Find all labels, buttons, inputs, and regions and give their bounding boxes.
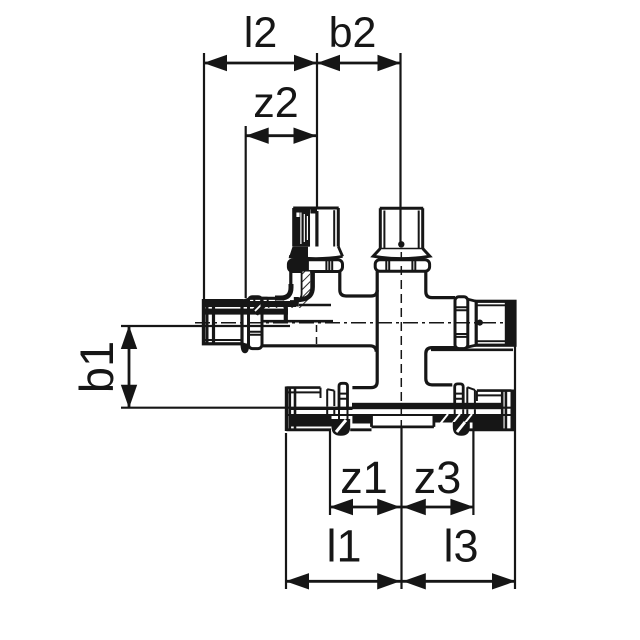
sectioned pipe wall dark band	[204, 309, 288, 315]
top dark insert	[311, 209, 318, 214]
b1 arrow up	[121, 326, 137, 350]
column right side upper	[426, 271, 455, 297]
bottom edge left	[286, 428, 331, 431]
z1 extension line left	[329, 431, 331, 515]
left sleeve	[286, 388, 320, 429]
right collar	[455, 384, 464, 407]
sleeve outline	[203, 301, 242, 344]
sleeve lower inner line	[203, 339, 242, 341]
indicator dot	[477, 320, 483, 326]
right sleeve	[477, 391, 512, 429]
bottom edge right	[467, 428, 516, 431]
svg-text:z3: z3	[414, 452, 462, 503]
b1 arrow down	[121, 385, 137, 409]
b1 extension line top	[121, 325, 290, 327]
hatch wedge over collar	[250, 300, 269, 316]
l2 arrow right	[294, 55, 317, 71]
collar ring	[375, 260, 429, 272]
elbow section hatch region	[262, 272, 310, 309]
z3 label	[414, 452, 462, 503]
elbow outer wall	[249, 272, 291, 299]
right arm bottom	[426, 348, 455, 385]
sleeve end bands	[207, 301, 214, 344]
z2 arrow left	[246, 128, 269, 144]
b1 extension line bottom / pipe seam	[121, 407, 513, 409]
sectioned skirt blob below cone	[241, 344, 250, 354]
l2 extension line left	[203, 53, 205, 300]
b2 extension line right	[399, 53, 401, 244]
l2 dimension line	[204, 62, 401, 65]
z1 label	[340, 452, 388, 503]
z3 arrow left	[403, 499, 426, 515]
l1 extension line left	[285, 433, 287, 589]
collar/skirt sides crossing white band	[327, 409, 475, 422]
centerline horizontal axis	[195, 322, 509, 324]
centre block	[372, 415, 434, 427]
elbow bore wall	[290, 272, 302, 302]
sleeve outline	[293, 208, 339, 247]
indicator dot	[398, 241, 404, 247]
collar ring	[455, 297, 468, 349]
l3 arrow left	[403, 573, 426, 589]
svg-text:l2: l2	[244, 9, 277, 57]
lower-right web edge	[431, 348, 513, 351]
step bump on elbow top edge	[254, 298, 267, 302]
bottom edge / bridge	[262, 346, 376, 352]
svg-text:b2: b2	[329, 9, 377, 57]
l1 label	[326, 521, 361, 572]
l1/l3 dimension line	[286, 580, 515, 583]
bottom bump right (sectioned knuckle)	[453, 422, 470, 436]
z2 extension line left	[245, 126, 247, 298]
centerline vertical left port	[316, 325, 318, 345]
white slivers in section	[301, 213, 308, 245]
collar ribs	[250, 332, 261, 335]
upper wall dark band thin part	[290, 407, 353, 410]
cone	[468, 299, 476, 347]
skirt right	[289, 247, 343, 259]
right skirt	[467, 387, 475, 406]
z2 arrow right	[294, 128, 317, 144]
sleeve outline	[476, 301, 515, 345]
hatch white slashes right	[440, 414, 472, 424]
b2 arrow left	[317, 55, 340, 71]
left collar ribs	[340, 394, 348, 399]
b2 arrow right	[378, 55, 401, 71]
z3 arrow right	[450, 499, 474, 515]
l1 arrow left	[286, 573, 310, 589]
right collar ribs	[455, 394, 463, 399]
elbow pipe wall dark strip	[296, 272, 313, 301]
port wall bar under elbow	[284, 307, 288, 321]
collar ribs	[456, 307, 466, 337]
skirt sectioned left	[289, 247, 308, 258]
svg-text:z1: z1	[340, 452, 388, 503]
z1 arrow left	[330, 499, 354, 515]
b1 label rotated	[70, 341, 123, 393]
upper wall dark band thick part	[352, 403, 502, 409]
right sleeve inner line	[477, 391, 502, 401]
sectioned upper wall dark band	[204, 301, 296, 307]
sleeve end band dark	[505, 301, 515, 345]
collar sectioned fill	[289, 261, 309, 271]
lower wall dark band mid-left	[352, 416, 371, 424]
z1/z3 dimension line	[330, 506, 473, 509]
centerline vertical main	[400, 252, 402, 438]
left collar	[339, 383, 348, 407]
lower wall dark band right	[473, 416, 502, 429]
sleeve inner walls	[384, 211, 418, 249]
svg-text:b1: b1	[70, 341, 123, 393]
collar ribs	[326, 261, 332, 271]
collar ribs	[386, 261, 415, 271]
sleeve inner lines	[476, 305, 506, 341]
column left side	[352, 271, 377, 387]
l3 label	[443, 521, 478, 572]
z2 dimension line	[246, 134, 317, 137]
sleeve pipe wall dark strip	[315, 211, 318, 247]
left skirt	[327, 389, 334, 406]
b2 label	[329, 9, 377, 57]
collar ring	[288, 260, 342, 272]
z2 label	[253, 79, 298, 127]
elbow outer corner knuckle	[275, 284, 291, 298]
cone	[242, 299, 249, 346]
sleeve bottom skirt	[373, 249, 430, 259]
lower wall hatch band right	[435, 416, 473, 423]
z3 extension line right	[472, 431, 474, 515]
pipe outer wall line under elbow	[299, 304, 331, 306]
l3 arrow right	[492, 573, 516, 589]
lower wall dark band left	[290, 416, 332, 427]
svg-text:z2: z2	[253, 79, 298, 127]
inner wall line	[286, 414, 511, 416]
svg-text:l1: l1	[326, 521, 361, 572]
l3 extension line right	[514, 345, 516, 589]
elbow wall lower stub	[294, 297, 299, 307]
bottom bump left (sectioned knuckle)	[332, 419, 351, 436]
svg-text:l3: l3	[443, 521, 478, 572]
bottom edge mid	[350, 428, 371, 431]
sleeve outline	[380, 208, 423, 248]
l2 arrow left	[204, 55, 228, 71]
pipe bore line under elbow	[262, 320, 333, 323]
z1 arrow right	[377, 499, 400, 515]
l1 arrow right	[377, 573, 400, 589]
bore channel white	[310, 213, 315, 247]
b1 dimension line	[128, 326, 131, 408]
sleeve inner wall right	[333, 210, 335, 246]
z1/z3 extension line centre	[400, 428, 402, 589]
left tube right side with saddle	[340, 272, 377, 297]
l2 label	[244, 9, 277, 57]
collar ring	[249, 297, 263, 349]
l2/b2 extension line middle	[316, 53, 318, 208]
left sleeve inner line	[286, 388, 320, 398]
sectioned left half dark mass	[293, 209, 310, 247]
